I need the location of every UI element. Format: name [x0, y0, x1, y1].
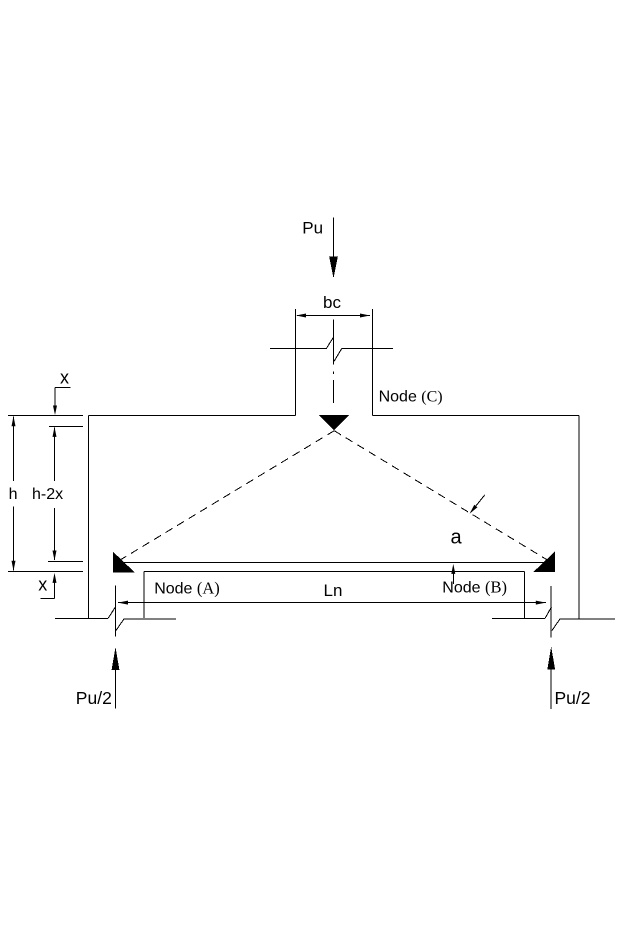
dimension h line upper — [13, 417, 15, 481]
column break diagonal upper — [327, 337, 334, 348]
load arrow Pu head — [329, 256, 338, 278]
beam left edge — [88, 416, 90, 619]
h bottom arrowhead — [12, 561, 16, 571]
column break cut line left — [270, 347, 327, 349]
leader x bottom horizontal — [40, 598, 54, 600]
svg-text:Pu/2: Pu/2 — [76, 688, 112, 708]
svg-text:Node (C): Node (C) — [379, 389, 443, 406]
svg-text:x: x — [60, 367, 69, 387]
strut C-A dashed — [116, 431, 334, 563]
left support base line left — [55, 617, 108, 619]
right support base line right — [560, 618, 615, 620]
dimension h-2x line lower — [54, 508, 56, 560]
leader x top vertical — [54, 388, 56, 413]
leader x bottom vertical — [54, 576, 56, 599]
dimension line bc — [297, 315, 370, 317]
svg-text:Pu: Pu — [302, 219, 323, 238]
h-2x bottom arrowhead — [53, 551, 57, 561]
h top arrowhead — [12, 416, 16, 426]
leader x top horizontal — [55, 387, 71, 389]
svg-text:Pu/2: Pu/2 — [555, 688, 591, 708]
svg-text:Node (A): Node (A) — [154, 578, 220, 597]
column centerline — [333, 320, 335, 365]
right support left edge — [524, 572, 526, 619]
h-2x top arrowhead — [53, 427, 57, 437]
right support centerline — [550, 586, 552, 638]
leader arrow a tail — [471, 495, 485, 512]
svg-text:x: x — [38, 575, 47, 595]
leader x top arrowhead — [53, 406, 57, 416]
extension line node C level — [49, 426, 83, 428]
dimension h line lower — [13, 507, 15, 571]
beam right edge — [578, 416, 580, 619]
beam top edge right segment — [373, 415, 580, 417]
left support right edge — [143, 572, 145, 619]
column break diagonal lower — [334, 349, 342, 362]
column break cut line right — [342, 348, 394, 350]
node A triangle — [113, 552, 135, 573]
reaction arrow Pu/2 left shaft — [115, 668, 117, 709]
beam top edge left segment — [89, 415, 296, 417]
left support base line right — [124, 618, 176, 620]
reaction arrow Pu/2 right shaft — [550, 667, 552, 709]
strut C-B dashed — [334, 431, 551, 563]
left support break diagonal upper — [108, 607, 116, 619]
svg-text:bc: bc — [323, 293, 341, 312]
load arrow Pu shaft — [333, 218, 335, 273]
right support base line left — [492, 617, 545, 619]
extension line beam top left — [8, 415, 83, 417]
extension line beam bottom — [8, 571, 83, 573]
leader arrow Node (B) shaft — [452, 574, 454, 585]
node C triangle — [319, 415, 349, 430]
Ln left arrowhead — [118, 601, 128, 605]
column right edge — [372, 309, 374, 416]
reaction arrow Pu/2 right head — [547, 647, 555, 670]
extension line node level bottom — [48, 560, 83, 562]
svg-text:a: a — [451, 527, 463, 549]
leader x bottom arrowhead — [53, 573, 57, 583]
svg-text:Node (B): Node (B) — [442, 577, 507, 596]
leader arrow Node (B) head — [451, 564, 455, 574]
dimension line Ln — [118, 602, 546, 604]
bc right arrowhead — [360, 314, 370, 318]
right support break diagonal upper — [545, 607, 552, 619]
right support break diagonal lower — [552, 619, 560, 631]
reaction arrow Pu/2 left head — [112, 647, 120, 670]
left support break diagonal lower — [116, 619, 124, 631]
leader arrow a head — [470, 505, 478, 514]
column left edge — [295, 309, 297, 416]
tie A-B — [117, 562, 551, 564]
left support centerline — [115, 586, 117, 637]
Ln right arrowhead — [536, 601, 546, 605]
bc left arrowhead — [296, 314, 306, 318]
svg-text:h: h — [9, 486, 18, 503]
dimension h-2x line upper — [54, 428, 56, 481]
svg-text:Ln: Ln — [324, 581, 343, 600]
beam bottom edge — [144, 571, 525, 573]
svg-text:h-2x: h-2x — [32, 486, 63, 503]
node B triangle — [533, 552, 555, 572]
